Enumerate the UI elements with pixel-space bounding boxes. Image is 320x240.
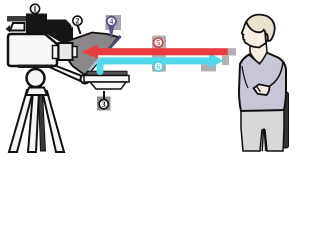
arm pivot knob	[81, 75, 90, 84]
camera (1) body	[8, 34, 57, 66]
cyan light path from monitor (vertical+curve)	[100, 61, 112, 72]
red arrowhead	[82, 45, 99, 59]
person: crotch line	[262, 132, 266, 151]
marker 4 halo	[106, 15, 122, 30]
marker 2 halo	[71, 15, 84, 28]
glass beam splitter lower part	[89, 53, 105, 71]
person: sweater torso	[239, 53, 286, 112]
camera handle bar	[7, 16, 26, 22]
person: far arm line	[258, 62, 283, 90]
marker 3 halo	[97, 97, 111, 111]
camera base plate	[18, 65, 53, 69]
marker 4 pin point (glass)	[108, 24, 115, 40]
viewfinder eyecup	[6, 25, 11, 33]
person: hair	[246, 15, 275, 41]
pan handle arm	[47, 64, 87, 83]
tripod back leg (shadow)	[39, 93, 46, 151]
shadow block right of red arrow end	[228, 48, 236, 55]
shadow block under cyan arrow	[201, 65, 216, 72]
person: far arm shadow strip	[283, 92, 289, 148]
tripod apex collar	[26, 88, 47, 96]
person: pants	[241, 108, 284, 151]
marker 3 (monitor)	[99, 100, 108, 109]
monitor (3) body	[84, 76, 129, 83]
white gap between beams	[93, 55, 129, 57]
lens barrel	[59, 43, 73, 60]
marker 1 (camera)	[30, 4, 39, 13]
marker 5 (image from subject)	[154, 38, 163, 47]
red beam from subject (5)	[97, 48, 228, 55]
tripod ball head	[27, 69, 45, 87]
monitor screen strip	[87, 71, 127, 75]
tripod middle leg	[28, 91, 39, 152]
glass beam splitter (4) upper edge	[108, 36, 121, 50]
marker halo strip behind 5 and 6	[152, 36, 166, 72]
person: hand fold line	[257, 86, 261, 92]
marker 6 (image from monitor)	[154, 62, 163, 71]
marker 4 (glass)	[107, 17, 116, 26]
person: near arm line	[242, 66, 248, 88]
lens front ring	[73, 47, 78, 58]
person: hand	[254, 84, 270, 95]
shadow block beyond cyan tip	[222, 56, 229, 65]
person: face	[242, 20, 266, 48]
cyan beam to subject (6)	[103, 57, 209, 64]
tripod left leg	[9, 90, 33, 152]
marker stem 3	[103, 91, 105, 99]
lens flange	[53, 46, 59, 59]
tripod right leg	[42, 90, 64, 152]
camera viewfinder	[10, 23, 25, 31]
shroud (2)	[62, 33, 118, 75]
person: neck and chest skin	[250, 40, 267, 64]
monitor base trapezoid	[90, 82, 126, 89]
marker stem 2	[78, 25, 81, 34]
marker 2 (shroud)	[73, 16, 82, 25]
cyan arrowhead	[209, 53, 223, 69]
camera top handle block	[26, 14, 73, 44]
